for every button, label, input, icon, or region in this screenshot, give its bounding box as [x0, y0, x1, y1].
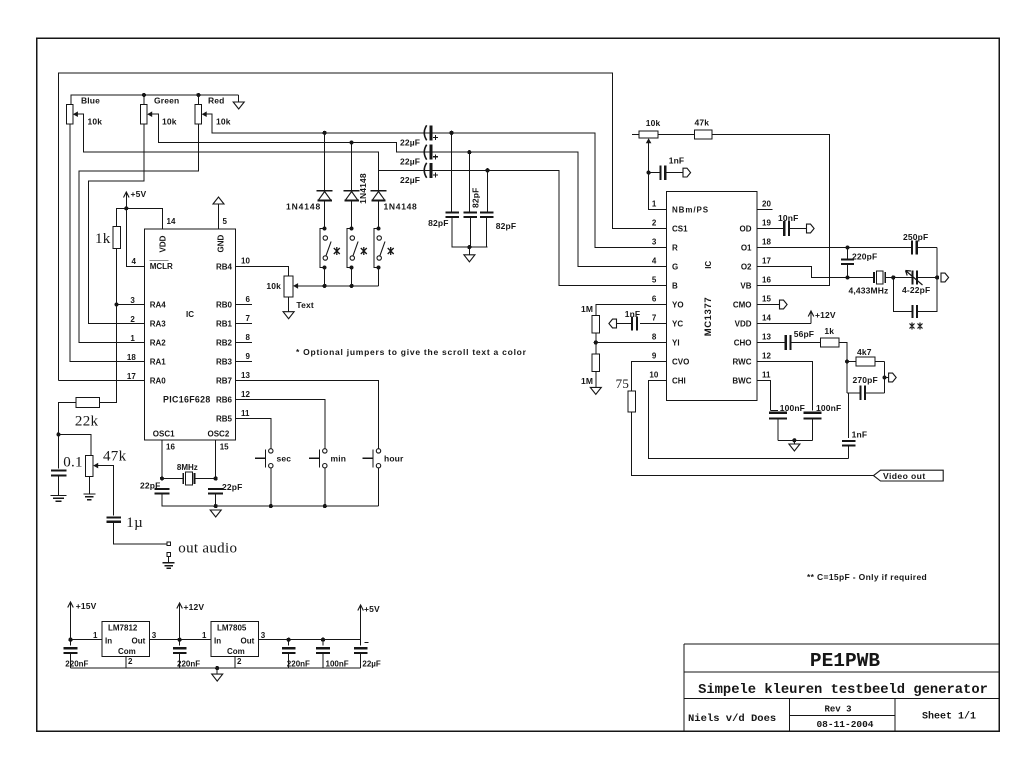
earth 0.1: [51, 496, 67, 502]
wire 7812 out rail: [150, 639, 212, 641]
svg-text:B: B: [672, 282, 678, 291]
capacitor 22uF R line: [424, 125, 426, 140]
wire O1 line: [757, 247, 911, 249]
svg-text:10k: 10k: [266, 281, 281, 291]
svg-text:16: 16: [166, 443, 175, 452]
svg-text:2: 2: [652, 218, 657, 227]
wire 15pF loop: [893, 278, 911, 312]
earth 47k: [83, 494, 95, 500]
wire supply rail 15V: [71, 639, 103, 641]
pin stub RB3: [236, 361, 252, 363]
resistor 47k top: [658, 134, 694, 136]
svg-text:O1: O1: [741, 244, 752, 253]
wire 75 to video flag: [632, 412, 874, 476]
svg-text:In: In: [214, 636, 221, 645]
svg-text:IC: IC: [704, 261, 713, 269]
wire +15V down: [70, 612, 72, 640]
svg-text:18: 18: [127, 353, 136, 362]
svg-text:4: 4: [132, 257, 137, 266]
capacitor 82pF 2: [464, 212, 478, 214]
resistor 75: [628, 391, 636, 412]
wire out gnd to earth: [168, 556, 170, 562]
capacitor 1uF: [107, 516, 121, 518]
capacitor 220pF: [847, 248, 849, 260]
pin stub RB2: [236, 342, 252, 344]
power +5V supply: [360, 606, 362, 616]
svg-text:100nF: 100nF: [816, 403, 841, 413]
crystal 8MHz: [162, 478, 183, 480]
svg-text:1: 1: [652, 199, 657, 208]
node 82pF rail: [467, 245, 471, 249]
wire 82pF drop 1: [451, 133, 453, 212]
capacitor 22pF OSC2: [208, 488, 223, 490]
svg-text:10k: 10k: [88, 117, 103, 127]
wire Green bottom to RA3: [88, 124, 144, 324]
svg-text:82pF: 82pF: [471, 188, 481, 208]
svg-text:3: 3: [130, 296, 135, 305]
wire 82pF ground rail: [452, 246, 488, 248]
svg-text:220nF: 220nF: [65, 659, 88, 668]
power +5V PIC: [125, 193, 127, 203]
wire crystal line: [848, 277, 875, 279]
ground 82pF rail: [468, 247, 470, 255]
svg-text:7: 7: [652, 313, 657, 322]
svg-text:+12V: +12V: [184, 602, 205, 612]
svg-text:YC: YC: [672, 320, 683, 329]
resistor 22k: [76, 398, 100, 408]
potentiometer 10k top: [632, 134, 639, 136]
wire diode3 to jumper3: [378, 201, 380, 228]
wire RA0 to IC: [58, 380, 144, 382]
svg-text:47k: 47k: [103, 449, 127, 465]
svg-text:220nF: 220nF: [287, 659, 310, 668]
svg-text:13: 13: [241, 371, 250, 380]
svg-text:LM7805: LM7805: [217, 623, 247, 632]
node jumper2 bottom bus: [350, 284, 354, 288]
svg-text:GND: GND: [217, 235, 226, 253]
svg-text:2: 2: [130, 315, 135, 324]
wire 1uF to out: [114, 522, 167, 544]
flag burst: [885, 377, 889, 379]
wire RB5 to sec: [236, 419, 271, 450]
wire to 1nF: [848, 393, 850, 438]
capacitor 100nF left: [769, 412, 787, 414]
potentiometer 47k: [85, 455, 93, 476]
wire osc ground rail: [162, 494, 379, 507]
svg-text:RA3: RA3: [150, 320, 167, 329]
wire Blue wiper to B line: [80, 114, 666, 285]
svg-text:LM7812: LM7812: [108, 623, 138, 632]
node flag tap: [883, 375, 887, 379]
wire jumper bus to pot wiper: [300, 285, 378, 287]
svg-text:YO: YO: [672, 301, 684, 310]
wire RB7 to hour: [236, 381, 379, 450]
svg-text:MC1377: MC1377: [703, 297, 714, 337]
svg-text:Com: Com: [227, 647, 245, 656]
wire 7805 com: [234, 657, 236, 669]
svg-text:12: 12: [762, 351, 771, 360]
svg-text:Green: Green: [154, 95, 179, 105]
capacitor 250pF: [911, 240, 913, 254]
svg-text:RA0: RA0: [150, 377, 167, 386]
svg-text:Blue: Blue: [81, 95, 100, 105]
svg-text:RB2: RB2: [216, 339, 233, 348]
power +12V supply: [179, 604, 181, 614]
svg-text:* Optional jumpers to give the: * Optional jumpers to give the scroll te…: [296, 347, 527, 357]
svg-text:1µ: 1µ: [126, 515, 143, 531]
svg-text:RB5: RB5: [216, 415, 233, 424]
wire Red bottom to RA2: [79, 124, 198, 343]
svg-text:20: 20: [762, 199, 771, 208]
ground 1M: [590, 387, 601, 394]
svg-text:5: 5: [223, 217, 228, 226]
node 82pF tap R: [449, 131, 453, 135]
svg-text:220nF: 220nF: [177, 659, 200, 668]
wire YC: [640, 323, 666, 325]
wire Blue bottom to RA1: [70, 124, 145, 362]
svg-text:13: 13: [762, 332, 771, 341]
svg-text:0.1: 0.1: [63, 455, 83, 471]
svg-text:100nF: 100nF: [780, 403, 805, 413]
svg-text:220pF: 220pF: [852, 252, 877, 262]
svg-text:IC: IC: [186, 310, 194, 319]
wire 7812 com: [125, 657, 127, 669]
svg-text:YI: YI: [672, 339, 680, 348]
flag CMO: [780, 300, 788, 309]
wire YO: [596, 305, 666, 316]
diode D1 1N4148: [317, 190, 333, 192]
terminal out audio signal: [167, 542, 171, 546]
svg-text:4: 4: [652, 256, 657, 265]
svg-text:1nF: 1nF: [669, 156, 685, 166]
svg-text:250pF: 250pF: [903, 232, 928, 242]
ground 100nF rail: [793, 440, 795, 444]
capacitor 220nF B: [179, 640, 181, 646]
svg-text:RA1: RA1: [150, 358, 167, 367]
IC LM7805: [211, 621, 259, 656]
capacitor 22uF G line: [424, 145, 426, 160]
svg-text:1k: 1k: [824, 326, 834, 336]
node crystal line: [845, 275, 849, 279]
svg-text:+5V: +5V: [131, 189, 147, 199]
earth out audio: [163, 563, 175, 569]
wire 0.1 to earth: [58, 476, 60, 496]
wire CHO: [757, 342, 786, 344]
capacitor 100nF right: [804, 412, 822, 414]
capacitor 15pF optional: [911, 305, 913, 318]
svg-text:CHI: CHI: [672, 377, 686, 386]
ground pot rail: [238, 95, 240, 102]
flag OD out: [807, 224, 815, 233]
node vin: [68, 638, 72, 642]
svg-text:1: 1: [93, 631, 98, 640]
wire Red wiper to R line: [209, 114, 667, 247]
svg-text:75: 75: [616, 376, 630, 391]
ground pin5 symbol: [213, 197, 224, 204]
wire 7805 out rail: [259, 639, 361, 641]
crystal 4.433MHz: [874, 272, 885, 283]
capacitor 220nF C: [288, 640, 290, 646]
svg-text:VDD: VDD: [735, 320, 752, 329]
wire to pin1: [649, 173, 667, 210]
node cap C tap: [287, 638, 291, 642]
svg-text:Com: Com: [118, 647, 136, 656]
ground supply: [216, 668, 218, 674]
wire O2 jog: [757, 267, 848, 278]
wire VDD: [757, 323, 811, 325]
svg-text:OD: OD: [740, 225, 752, 234]
node jumper1 bottom bus: [323, 284, 327, 288]
svg-text:3: 3: [261, 631, 266, 640]
svg-text:22k: 22k: [75, 414, 99, 430]
wire top rail RA0/CS1 net: [58, 73, 666, 381]
svg-text:14: 14: [762, 313, 771, 322]
svg-text:1: 1: [202, 631, 207, 640]
svg-text:RB0: RB0: [216, 301, 233, 310]
svg-text:PE1PWB: PE1PWB: [810, 650, 881, 672]
potentiometer Red 10k: [195, 104, 201, 124]
capacitor 22uF B line: [424, 163, 426, 178]
wire 100nF gnd rail: [778, 439, 813, 441]
node Red top: [196, 93, 200, 97]
svg-text:NBm/PS: NBm/PS: [672, 206, 709, 215]
capacitor 270pF: [847, 392, 861, 394]
capacitor 100nF D: [322, 640, 324, 646]
svg-text:min: min: [331, 453, 347, 463]
svg-text:+15V: +15V: [76, 601, 97, 611]
svg-text:RB1: RB1: [216, 320, 233, 329]
svg-text:MCLR: MCLR: [150, 262, 173, 271]
svg-text:2: 2: [128, 657, 133, 666]
svg-text:hour: hour: [384, 453, 404, 463]
node audio junction: [56, 432, 60, 436]
wire CHI: [648, 381, 848, 459]
svg-text:16: 16: [762, 275, 771, 284]
wire 82pF drop 3: [487, 170, 489, 211]
wire RB4 to pot: [236, 267, 289, 277]
svg-text:18: 18: [762, 237, 771, 246]
svg-text:9: 9: [246, 352, 251, 361]
wire RWC: [757, 362, 813, 411]
node +12V tap: [178, 638, 182, 642]
svg-text:VDD: VDD: [159, 235, 168, 252]
svg-text:R: R: [672, 244, 678, 253]
node OSC1 xtal: [160, 476, 164, 480]
capacitor 22uF E: [360, 640, 362, 646]
capacitor 220nF A: [70, 640, 72, 646]
node 1nF junction: [647, 171, 651, 175]
svg-text:sec: sec: [277, 453, 292, 463]
capacitor 22pF OSC1: [154, 488, 169, 490]
capacitor 0.1: [51, 470, 67, 472]
node +5V junction: [124, 206, 128, 210]
wire Red top lead: [197, 95, 199, 105]
pin stub RB1: [236, 323, 252, 325]
svg-text:14: 14: [167, 217, 176, 226]
wire diode1 to jumper1: [324, 201, 326, 228]
node YI: [594, 340, 598, 344]
flag Video out: [874, 470, 944, 481]
node osc rail gnd: [214, 504, 218, 508]
capacitor 1nF video: [842, 440, 856, 442]
ground osc rail: [210, 510, 221, 517]
svg-text:6: 6: [652, 294, 657, 303]
wire 1k node down to 22k: [100, 305, 117, 403]
pushbutton hour: [376, 449, 380, 453]
flag 1nF: [683, 168, 691, 177]
resistor 1k: [117, 208, 127, 226]
potentiometer Green 10k: [141, 104, 147, 124]
node 100nF rail: [792, 438, 796, 442]
svg-text:RB4: RB4: [216, 263, 233, 272]
capacitor 82pF 1: [445, 212, 459, 214]
wire 100nF left bottom: [777, 418, 779, 440]
svg-text:22µF: 22µF: [400, 157, 420, 167]
svg-text:O2: O2: [741, 263, 752, 272]
trimmer 4-22pF: [911, 271, 913, 285]
svg-text:1M: 1M: [581, 376, 593, 386]
svg-text:2: 2: [237, 657, 242, 666]
svg-text:Sheet 1/1: Sheet 1/1: [922, 711, 976, 723]
node RA4: [115, 302, 119, 306]
potentiometer Text 10k: [284, 276, 293, 297]
resistor 1k CHO: [820, 338, 839, 347]
jumper J3: [376, 226, 380, 230]
wire 1M to YI: [595, 333, 597, 342]
svg-text:out audio: out audio: [178, 541, 237, 557]
svg-text:8: 8: [652, 332, 657, 341]
ground Text pot: [283, 312, 294, 319]
svg-text:9: 9: [652, 351, 657, 360]
capacitor 1nF YC: [631, 316, 633, 330]
svg-text:BWC: BWC: [732, 377, 751, 386]
svg-text:15: 15: [762, 294, 771, 303]
svg-text:1N4148: 1N4148: [358, 173, 368, 204]
node gnd rail tap: [215, 666, 219, 670]
wire 82pF drop 2: [468, 152, 470, 212]
diode D3 1N4148: [371, 190, 387, 192]
wire 270pF branch: [846, 362, 848, 393]
wire pot ground rail: [71, 95, 239, 105]
svg-text:G: G: [672, 263, 678, 272]
capacitor 56pF: [785, 335, 787, 350]
capacitor 10nF: [783, 221, 785, 236]
capacitor 1nF pin1: [649, 172, 661, 174]
wire RB6 to min: [236, 400, 325, 450]
wire hour to rail: [378, 468, 380, 507]
svg-text:1N4148: 1N4148: [286, 202, 321, 212]
svg-text:RA4: RA4: [150, 301, 167, 310]
power +15V input: [70, 603, 72, 613]
svg-text:RB3: RB3: [216, 358, 233, 367]
wire OD: [757, 228, 784, 230]
svg-text:Out: Out: [241, 636, 255, 645]
wire 1M to ground: [595, 371, 597, 387]
svg-text:19: 19: [762, 218, 771, 227]
wire BWC: [757, 381, 770, 411]
svg-text:RB7: RB7: [216, 377, 233, 386]
svg-text:VB: VB: [740, 282, 751, 291]
svg-text:82pF: 82pF: [496, 221, 516, 231]
node diode1 tap: [323, 131, 327, 135]
svg-text:08-11-2004: 08-11-2004: [816, 719, 873, 730]
wire 1k to RA4 node: [116, 249, 118, 305]
wire 47k to earth: [88, 476, 90, 494]
svg-text:1nF: 1nF: [625, 309, 641, 319]
svg-text:8MHz: 8MHz: [177, 463, 198, 472]
svg-text:OSC1: OSC1: [153, 430, 175, 439]
diode D2 1N4148: [344, 190, 360, 192]
wire supply gnd rail: [71, 667, 361, 669]
svg-text:8: 8: [246, 333, 251, 342]
wire right loop: [936, 248, 938, 278]
wire Green top lead: [143, 95, 145, 105]
svg-text:47k: 47k: [695, 118, 710, 128]
node sec rail: [269, 504, 273, 508]
resistor 1M upper: [592, 316, 600, 334]
svg-text:15: 15: [220, 443, 229, 452]
svg-text:17: 17: [127, 372, 136, 381]
flag YC: [609, 319, 617, 328]
svg-text:1: 1: [130, 334, 135, 343]
wire +5V to pin14: [125, 202, 127, 208]
svg-text:Text: Text: [296, 300, 313, 310]
wire 1nF bottom: [848, 446, 850, 459]
resistor 1M lower: [595, 343, 597, 354]
node diode2 tap: [350, 140, 354, 144]
wire jumper2 to bus: [351, 268, 353, 286]
wire pot bottom to ground: [288, 297, 290, 312]
svg-text:** C=15pF - Only if required: ** C=15pF - Only if required: [807, 572, 927, 582]
wire 100nF right bottom: [812, 418, 814, 440]
node 82pF tap G: [467, 150, 471, 154]
wire CMO stub: [757, 304, 780, 306]
svg-text:In: In: [105, 636, 112, 645]
terminal out audio gnd: [167, 553, 171, 557]
wire diode1 drop: [324, 133, 326, 191]
node OSC2 xtal: [214, 476, 218, 480]
wire 47k wiper to 1uF: [100, 466, 114, 516]
wire OSC2 lead: [215, 440, 217, 479]
svg-text:22µF: 22µF: [400, 137, 420, 147]
svg-text:56pF: 56pF: [794, 329, 814, 339]
svg-text:Niels v/d Does: Niels v/d Does: [688, 713, 776, 725]
wire junction to 0.1: [58, 434, 60, 468]
svg-text:270pF: 270pF: [853, 375, 878, 385]
svg-text:10: 10: [241, 257, 250, 266]
wire 1k to node: [839, 343, 847, 362]
svg-text:10k: 10k: [216, 117, 231, 127]
wire Green wiper to G line: [154, 114, 666, 266]
wire 82pF1 bottom: [451, 217, 453, 247]
node trimmer right: [935, 275, 939, 279]
node cap D tap: [321, 638, 325, 642]
svg-text:CMO: CMO: [733, 301, 752, 310]
svg-text:11: 11: [762, 370, 771, 379]
svg-text:Video out: Video out: [883, 471, 926, 481]
svg-text:22µF: 22µF: [400, 175, 420, 185]
svg-text:Rev 3: Rev 3: [824, 705, 851, 715]
jumper J1: [323, 226, 327, 230]
capacitor 82pF 3: [480, 212, 494, 214]
pushbutton min: [323, 449, 327, 453]
svg-text:17: 17: [762, 256, 771, 265]
svg-text:+12V: +12V: [815, 310, 836, 320]
svg-text:PIC16F628: PIC16F628: [163, 395, 211, 405]
svg-text:1M: 1M: [581, 304, 593, 314]
wire diode2 to jumper2: [351, 201, 353, 228]
svg-text:CS1: CS1: [672, 225, 688, 234]
